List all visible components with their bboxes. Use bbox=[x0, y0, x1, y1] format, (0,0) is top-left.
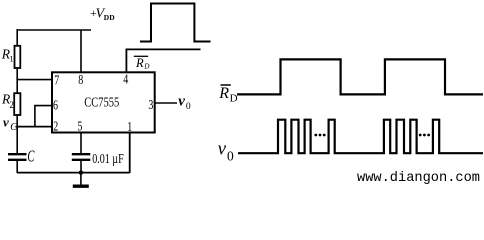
wire: pin 1 to ground rail bbox=[129, 133, 131, 173]
svg-text:3: 3 bbox=[148, 98, 153, 113]
svg-text:DD: DD bbox=[104, 13, 115, 22]
dots burst 2 bbox=[419, 134, 430, 137]
svg-text:CC7555: CC7555 bbox=[84, 96, 119, 111]
svg-text:7: 7 bbox=[54, 74, 59, 89]
label vO (pin 3) bbox=[178, 94, 191, 113]
resistor R1 bbox=[15, 29, 21, 80]
svg-text:2: 2 bbox=[53, 119, 58, 134]
svg-text:0.01 µF: 0.01 µF bbox=[92, 152, 124, 167]
capacitor 0.01uF bbox=[72, 133, 91, 173]
label RD-bar (waveform) bbox=[218, 85, 237, 105]
svg-text:1: 1 bbox=[9, 54, 13, 64]
wire: pin 6 L-shaped branch bbox=[35, 106, 52, 127]
svg-text:v: v bbox=[218, 138, 227, 159]
dots burst 1 bbox=[314, 134, 325, 137]
svg-text:8: 8 bbox=[78, 73, 83, 88]
waveform RD bbox=[237, 59, 483, 94]
svg-text:C: C bbox=[27, 147, 35, 166]
svg-text:v: v bbox=[178, 94, 185, 110]
svg-text:R: R bbox=[135, 56, 144, 70]
svg-text:R: R bbox=[218, 85, 229, 102]
wire: vC node to pin 2 bbox=[16, 126, 53, 128]
op-amp U1 CC7555 body bbox=[52, 72, 155, 132]
wire: pin 3 output bbox=[155, 102, 177, 104]
svg-text:6: 6 bbox=[53, 99, 58, 114]
wire: pin 8 to VDD rail bbox=[80, 30, 82, 72]
junction dot bbox=[79, 170, 83, 174]
wire: bottom ground rail bbox=[17, 172, 130, 174]
label R1 bbox=[1, 46, 14, 63]
capacitor C bbox=[8, 126, 27, 173]
reset pulse annotation bbox=[140, 4, 211, 42]
svg-text:v: v bbox=[3, 115, 9, 130]
svg-text:www.diangon.com: www.diangon.com bbox=[357, 170, 480, 186]
svg-text:C: C bbox=[10, 122, 17, 133]
svg-text:4: 4 bbox=[123, 73, 128, 88]
svg-text:1: 1 bbox=[127, 120, 132, 135]
svg-text:0: 0 bbox=[186, 101, 191, 112]
resistor R2 bbox=[14, 79, 20, 127]
ground bbox=[73, 173, 89, 187]
label RD-bar (schematic) bbox=[134, 56, 151, 71]
node vC label bbox=[3, 115, 17, 134]
waveform vO bbox=[238, 120, 483, 154]
label vO (waveform) bbox=[218, 138, 234, 163]
svg-text:0: 0 bbox=[227, 149, 234, 164]
label +VDD bbox=[90, 6, 115, 22]
wire: pin 4 reset input bbox=[126, 49, 200, 72]
wire: R1/R2 junction to pin 7 bbox=[17, 79, 52, 81]
label R2 bbox=[1, 91, 14, 110]
svg-text:D: D bbox=[230, 92, 238, 104]
svg-text:D: D bbox=[143, 63, 150, 71]
svg-text:5: 5 bbox=[77, 120, 82, 135]
svg-text:2: 2 bbox=[9, 100, 14, 110]
wire: +VDD top rail bbox=[17, 29, 91, 31]
